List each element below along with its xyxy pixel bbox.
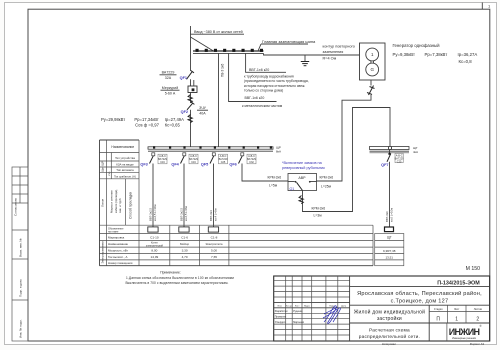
svg-text:QF7: QF7 (381, 163, 388, 167)
load: group C1-6 box (179, 227, 189, 232)
busbar ShchG (guaranteed power bus) (370, 146, 418, 154)
svg-text:распределительной сети.: распределительной сети. (359, 333, 420, 340)
switch Q1 ATS (AVR) changeover (288, 174, 317, 191)
svg-text:Руденко: Руденко (293, 310, 303, 313)
wire: QF1 to meter (190, 79, 192, 86)
title block frame (274, 276, 490, 341)
generator G1 single-phase (360, 43, 386, 80)
svg-text:АВР: АВР (298, 176, 306, 180)
label: notes (125, 271, 234, 286)
svg-text:R=4 Ом: R=4 Ом (323, 56, 337, 60)
svg-text:Марченко: Марченко (293, 321, 305, 324)
wire: generator to ATS right contact (317, 95, 372, 181)
svg-text:Кол.уч: Кол.уч (286, 305, 292, 307)
svg-text:Взам. инв. №: Взам. инв. № (19, 238, 23, 257)
svg-text:к металлическим частям: к металлическим частям (242, 104, 283, 108)
svg-text:QF3: QF3 (140, 163, 147, 167)
value: QF2 fraction (197, 106, 208, 116)
svg-text:Рр=17,34кВт: Рр=17,34кВт (134, 117, 159, 122)
wire: GZSh to generator earth link (264, 53, 360, 55)
node: ATS note (blue) (282, 161, 325, 170)
svg-text:8кА: 8кА (276, 150, 281, 154)
svg-text:кв.4 L=6м: кв.4 L=6м (214, 208, 218, 221)
svg-text:Жилой дом индивидуальной: Жилой дом индивидуальной (354, 308, 425, 315)
svg-text:Инженерные решения: Инженерные решения (452, 338, 477, 340)
svg-text:Кс=0,65: Кс=0,65 (165, 123, 181, 128)
svg-text:Iр=27,49А: Iр=27,49А (165, 117, 184, 122)
breaker QF6 (229, 153, 256, 167)
svg-text:с.Троицкое, дом 127: с.Троицкое, дом 127 (391, 298, 449, 304)
svg-text:Лист: Лист (454, 308, 460, 311)
breaker QF2 (181, 102, 195, 114)
table: ShchG summary box (375, 234, 404, 266)
svg-text:электрический: электрический (146, 244, 164, 247)
svg-text:Подп. и дата: Подп. и дата (19, 279, 23, 297)
svg-text:Изм: Изм (278, 305, 283, 307)
busbar GZSh (main earthing bus) (193, 49, 264, 54)
breaker QF7 (381, 150, 404, 167)
svg-text:2: 2 (476, 317, 479, 323)
svg-text:Ярославская область, Переславс: Ярославская область, Переславский район, (357, 290, 482, 297)
wire: GZSh tap to metal parts (229, 53, 283, 107)
table: load schedule grid (100, 140, 374, 266)
ground: re-earthing loop (301, 55, 309, 66)
svg-text:L=3м: L=3м (314, 213, 323, 217)
svg-text:Разработал: Разработал (275, 310, 289, 313)
wire: QF7 branch to ShchG load (385, 162, 394, 227)
svg-text:Ру=9,38кВт: Ру=9,38кВт (393, 52, 415, 57)
svg-text:Листов: Листов (474, 308, 483, 311)
svg-text:реверсивный рубильник: реверсивный рубильник (282, 166, 325, 170)
svg-text:к трубопроводу водоснабжения: к трубопроводу водоснабжения (244, 75, 294, 79)
title block left grid (274, 276, 350, 341)
wire: QF3 branch to load (149, 164, 158, 227)
logo INZHIN cell (447, 323, 483, 341)
svg-text:только со стороны дома): только со стороны дома) (244, 88, 283, 92)
svg-text:Iр=36,27А: Iр=36,27А (458, 52, 478, 57)
svg-text:П-134/2015-ЭОМ: П-134/2015-ЭОМ (437, 280, 480, 286)
svg-text:С1-10: С1-10 (150, 235, 159, 239)
svg-text:ВВГ-1х6 к20: ВВГ-1х6 к20 (245, 96, 265, 100)
svg-text:Бойлер: Бойлер (180, 242, 190, 246)
label: scale M 150 (466, 266, 481, 272)
breaker QF5 (201, 153, 228, 167)
wire: main input drop (190, 26, 192, 71)
svg-text:Cos ф =0,97: Cos ф =0,97 (135, 123, 159, 128)
svg-text:40А: 40А (199, 112, 206, 116)
svg-text:застройки: застройки (377, 315, 402, 322)
svg-text:С16: С16 (191, 161, 196, 164)
svg-text:М 150: М 150 (466, 266, 481, 272)
svg-text:которая находится относительно: которая находится относительно свеж. (244, 84, 305, 88)
svg-text:5,00: 5,00 (211, 249, 217, 253)
svg-text:QF5: QF5 (201, 163, 208, 167)
svg-text:Копировал: Копировал (382, 342, 396, 346)
svg-text:Электроприемники: Электроприемники (102, 241, 105, 264)
svg-text:ВВГ-3х2,5: ВВГ-3х2,5 (149, 208, 153, 221)
svg-text:Q1: Q1 (290, 187, 295, 191)
label: generator parameters (393, 43, 478, 64)
svg-text:КРМ-3х6: КРМ-3х6 (312, 207, 326, 211)
svg-text:кв.6 L=10м: кв.6 L=10м (390, 208, 394, 222)
svg-text:Выключатель в 700 с выделенным: Выключатель в 700 с выделенным замечание… (125, 281, 228, 285)
svg-text:С32: С32 (249, 161, 254, 164)
svg-text:Меркурий: Меркурий (162, 86, 178, 90)
svg-text:G: G (370, 67, 374, 72)
svg-text:Кс=0,8: Кс=0,8 (459, 59, 473, 64)
meter Wh (Mercury) (188, 80, 197, 93)
svg-text:ИНЖИН: ИНЖИН (449, 327, 480, 337)
svg-text:ПВ-3 1х6: ПВ-3 1х6 (221, 63, 225, 77)
svg-text:Главная заземляющая шина: Главная заземляющая шина (262, 39, 316, 44)
svg-text:Ру=29,98кВт: Ру=29,98кВт (101, 117, 125, 122)
svg-text:Линия: Линия (101, 198, 105, 207)
node: input feeder label (191, 30, 245, 34)
svg-text:Дата: Дата (341, 305, 347, 307)
svg-text:4,70: 4,70 (182, 255, 188, 259)
svg-text:ВВГ-3х2,5: ВВГ-3х2,5 (180, 208, 184, 221)
label: re-earthing loop R=4 Ohm (323, 45, 355, 61)
svg-text:5-60 А: 5-60 А (165, 92, 176, 96)
svg-text:32А: 32А (165, 76, 172, 80)
svg-text:ЗЧУ: ЗЧУ (199, 106, 206, 110)
label: water pipe bonding note (244, 75, 309, 93)
load: group C1-10 box (148, 227, 158, 232)
wire: GZSh tap to water pipe (246, 53, 286, 72)
value: cable KRM-3x6 L=25m (320, 175, 334, 188)
wire: cable squiggle below QF2 (188, 110, 192, 147)
svg-text:14,09: 14,09 (151, 255, 159, 259)
svg-text:Примечание:: Примечание: (160, 271, 181, 275)
wire: PE riser GZSh to panel (219, 53, 225, 146)
load: group C1-8 box (208, 227, 218, 232)
label: sheet title cell (359, 328, 420, 341)
svg-text:Тип устройства: Тип устройства (115, 156, 135, 160)
svg-text:QF6: QF6 (229, 163, 236, 167)
svg-text:1: 1 (455, 317, 458, 323)
svg-text:КРМ-3х6: КРМ-3х6 (320, 175, 334, 179)
svg-text:ЩГ: ЩГ (387, 236, 392, 240)
breaker QF4 (171, 153, 198, 167)
busbar ShchR (main panel bus) (148, 146, 281, 154)
svg-text:QF2: QF2 (181, 110, 188, 114)
svg-text:контур повторного: контур повторного (323, 45, 355, 49)
svg-text:Наименование: Наименование (111, 145, 134, 149)
svg-text:L=25м: L=25м (321, 184, 332, 188)
svg-text:Ввод ~380 В от жилых сетей: Ввод ~380 В от жилых сетей (194, 30, 243, 34)
svg-text:*Включение замков на: *Включение замков на (282, 161, 323, 165)
wire: ATS output riser to ShchG bus (299, 108, 390, 212)
svg-text:заземления: заземления (323, 50, 344, 54)
svg-text:Ток срабатыв. (А): Ток срабатыв. (А) (114, 174, 136, 178)
svg-text:Щит ЩР: Щит ЩР (101, 161, 105, 172)
svg-text:9,38/7,38: 9,38/7,38 (383, 249, 396, 253)
svg-text:3,30: 3,30 (182, 249, 188, 253)
svg-text:(присоединяется по часть трубо: (присоединяется по часть трубопровода, (244, 79, 309, 83)
svg-text:Расчетная схема: Расчетная схема (369, 328, 410, 334)
svg-text:1.Данная схема обозначена Выкл: 1.Данная схема обозначена Выключатели в … (126, 276, 234, 280)
value: meter fraction Mercury/5-60A (161, 86, 180, 96)
svg-text:С1-8: С1-8 (211, 235, 218, 239)
svg-text:Рр=7,38кВт: Рр=7,38кВт (425, 52, 448, 57)
svg-text:Генератор однофазный: Генератор однофазный (393, 43, 441, 48)
svg-text:Номер помещения: Номер помещения (108, 261, 133, 265)
svg-text:ВВГ-3х6: ВВГ-3х6 (385, 211, 389, 222)
svg-text:Утвердил: Утвердил (275, 321, 286, 324)
value: column C1-8 data (206, 235, 223, 259)
svg-text:L=5м: L=5м (269, 183, 278, 187)
label: document code cell (350, 280, 490, 286)
value: cable KRM-3x6 L=5m (268, 176, 282, 188)
svg-text:кв.2,5 L=8м: кв.2,5 L=8м (184, 206, 188, 221)
svg-text:УЗО: УЗО (109, 171, 111, 176)
wire: QF6 to ATS left contact (242, 164, 288, 182)
left margin attachment column (12, 167, 28, 341)
label: table header rows (101, 145, 136, 265)
svg-text:QF4: QF4 (171, 163, 179, 167)
svg-text:Проверил: Проверил (275, 315, 287, 318)
svg-text:на плане: на плане (108, 231, 119, 234)
svg-text:13,51: 13,51 (385, 255, 393, 259)
svg-text:Инв. № подл.: Инв. № подл. (19, 319, 23, 338)
svg-text:Лист: Лист (295, 305, 300, 307)
label: signature rows (275, 310, 305, 324)
label: panel calc parameters (101, 117, 184, 128)
load: ShchG panel box (385, 227, 394, 232)
svg-text:Мощность, кВт: Мощность, кВт (108, 249, 129, 253)
label: object name cell (350, 305, 490, 341)
svg-text:ВВГ-3х4: ВВГ-3х4 (209, 210, 213, 221)
svg-text:С16: С16 (160, 161, 165, 164)
svg-text:зав. и труб: зав. и труб (118, 198, 122, 213)
label: format footer (382, 342, 485, 346)
wire: QF4 branch to load (180, 164, 189, 227)
wire: QF5 branch to load (209, 164, 218, 227)
svg-text:№док: №док (304, 304, 310, 307)
top-right inventory cell (482, 3, 491, 10)
switch: generator disconnect (367, 80, 375, 95)
svg-text:Стадия: Стадия (434, 308, 443, 311)
label: project address cell (350, 290, 490, 305)
svg-text:кв.2,5 L=10м: кв.2,5 L=10м (153, 205, 157, 221)
svg-text:П: П (436, 317, 440, 323)
value: cable KRM-3x6 L=3m (312, 207, 326, 218)
value: column C1-6 data (180, 235, 190, 259)
svg-text:С1-6: С1-6 (181, 235, 188, 239)
svg-text:КРМ-3х6: КРМ-3х6 (268, 176, 282, 180)
svg-text:Наименование: Наименование (108, 242, 128, 246)
wire: feeder diagonal to GZSh (191, 37, 214, 51)
signature scribble (blue) (323, 306, 340, 324)
svg-text:4кА: 4кА (413, 150, 418, 154)
svg-text:Ток вычисл., А: Ток вычисл., А (108, 255, 127, 259)
breaker QF3 (140, 153, 167, 167)
label: GZSh name (258, 39, 316, 51)
svg-text:Способ прокладки: Способ прокладки (129, 191, 133, 219)
svg-text:8,00: 8,00 (151, 249, 157, 253)
label: revision header cells (278, 304, 347, 307)
svg-text:КЗА на вводе: КЗА на вводе (116, 162, 134, 166)
wire: cable squiggle below meter (188, 93, 192, 103)
svg-text:7,65: 7,65 (211, 255, 217, 259)
svg-text:Формат А3: Формат А3 (470, 342, 485, 346)
svg-text:ВВГ-1х6 к20: ВВГ-1х6 к20 (249, 68, 269, 72)
svg-text:QF1: QF1 (180, 76, 187, 80)
svg-text:Маркировка: Маркировка (108, 235, 125, 239)
value: QF1 type fraction VA7229/32A (160, 71, 177, 81)
label: stage/sheet cells (429, 305, 489, 323)
breaker QF1 (180, 71, 194, 81)
value: column C1-10 data (146, 235, 164, 259)
svg-text:С25: С25 (397, 160, 402, 163)
svg-text:С25: С25 (221, 161, 226, 164)
svg-text:Согласовано: Согласовано (14, 198, 18, 216)
svg-text:Тип автомата: Тип автомата (116, 168, 134, 172)
svg-text:ВА7229: ВА7229 (162, 71, 175, 75)
svg-text:Электроплита: Электроплита (206, 242, 223, 246)
